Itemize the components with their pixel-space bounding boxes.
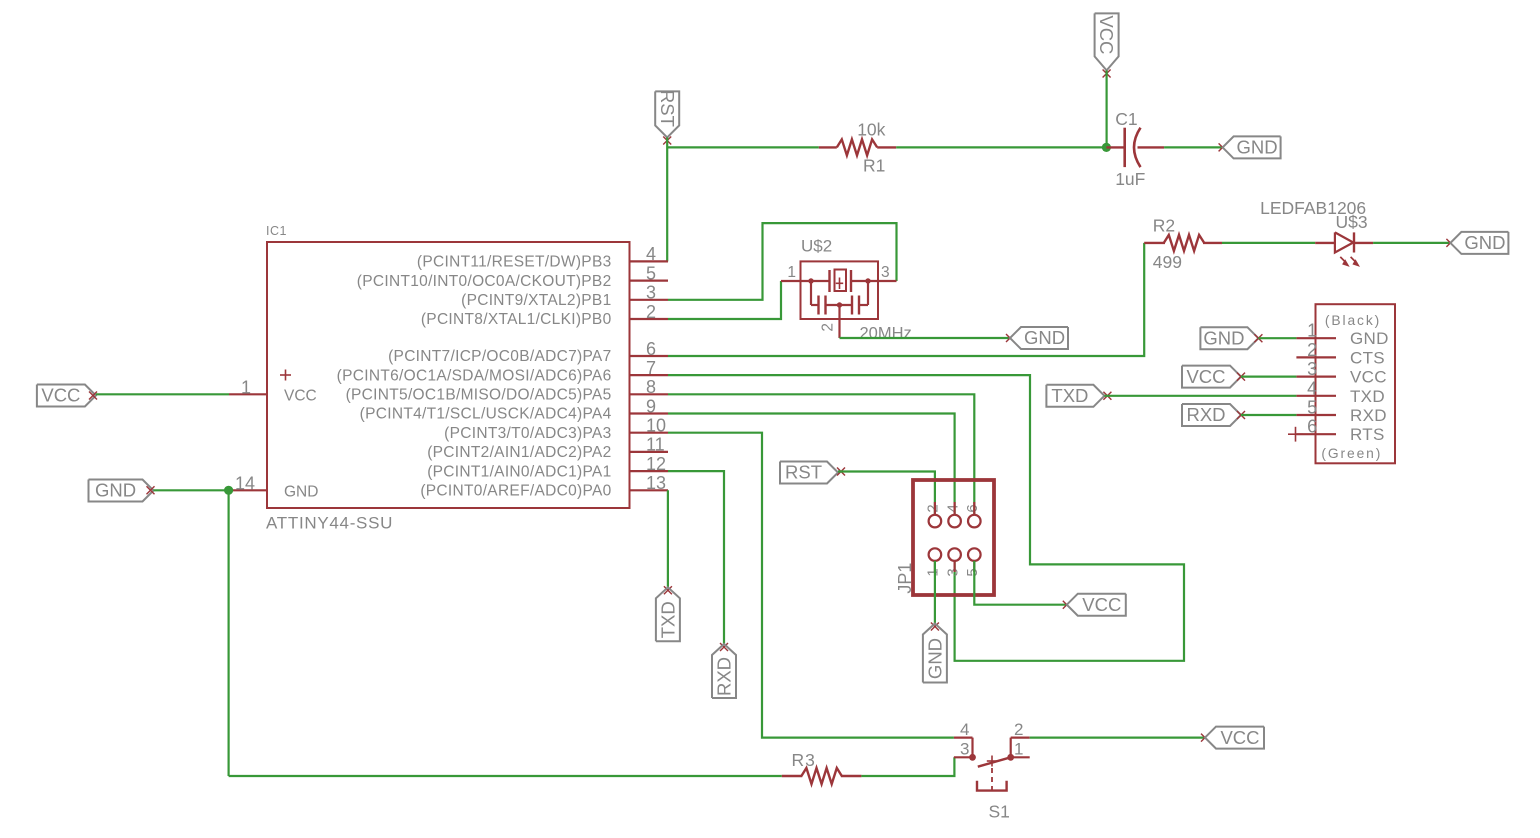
wire resonator pin 2 to GND: [840, 337, 1011, 339]
svg-text:TXD: TXD: [1051, 385, 1088, 406]
resistor R1: [819, 139, 896, 155]
switch S1 pin 3 stub: [954, 740, 973, 759]
switch S1 contact arm: [978, 757, 1011, 766]
net flag RST (top): [655, 90, 679, 137]
power flag VCC (bottom): [1205, 727, 1264, 749]
wire IC pin 10 to S1 pin 4: [668, 433, 954, 738]
svg-text:(PCINT9/XTAL2)PB1: (PCINT9/XTAL2)PB1: [461, 292, 611, 309]
resonator bottom rail right: [859, 304, 868, 306]
wire IC pin 6 to R2: [668, 243, 1144, 356]
ground flag GND (top): [1223, 136, 1281, 158]
svg-text:GND: GND: [1203, 327, 1244, 348]
svg-text:5: 5: [964, 568, 981, 576]
FTDI pin 1 (GND) stub: [1296, 321, 1388, 349]
svg-text:JP1: JP1: [895, 563, 915, 594]
junction cross at LED GND tip: [1446, 239, 1454, 247]
svg-text:1: 1: [1014, 740, 1023, 759]
JP1 pin 4 pad: [948, 515, 961, 528]
IC1 pin 7 (PA6) stub: [337, 358, 668, 384]
svg-text:R2: R2: [1153, 216, 1175, 236]
FTDI header body: [1316, 304, 1396, 463]
svg-text:(PCINT1/AIN0/ADC1)PA1: (PCINT1/AIN0/ADC1)PA1: [427, 463, 611, 480]
FTDI RTS open cross: [1288, 427, 1303, 442]
svg-text:2: 2: [925, 504, 942, 512]
svg-text:(PCINT4/T1/SCL/USCK/ADC4)PA4: (PCINT4/T1/SCL/USCK/ADC4)PA4: [360, 406, 612, 423]
svg-text:GND: GND: [924, 638, 945, 679]
label JP1 name: [895, 563, 915, 594]
svg-text:VCC: VCC: [1220, 727, 1259, 748]
resonator junction dot a: [808, 278, 813, 283]
svg-text:6: 6: [964, 504, 981, 512]
junction cross FTDI TXD: [1103, 392, 1111, 400]
power flag VCC (left): [37, 385, 96, 407]
svg-text:(PCINT6/OC1A/SDA/MOSI/ADC6)PA6: (PCINT6/OC1A/SDA/MOSI/ADC6)PA6: [337, 367, 612, 384]
wire VCC down to junction: [1105, 70, 1107, 147]
resonator bottom rail mid: [826, 304, 853, 306]
IC1 pin 14 (GND) stub: [229, 474, 267, 494]
FTDI pin 6 (RTS) stub: [1296, 417, 1384, 445]
svg-text:6: 6: [646, 339, 656, 359]
junction cross at left VCC tip: [89, 392, 97, 400]
svg-text:(PCINT7/ICP/OC0B/ADC7)PA7: (PCINT7/ICP/OC0B/ADC7)PA7: [388, 348, 611, 365]
wire IC pin 2 to resonator pin 1: [668, 281, 781, 319]
JP1 pin 2 number: [925, 504, 942, 512]
switch S1 cross mark: [987, 756, 998, 767]
svg-text:TXD: TXD: [1350, 387, 1385, 406]
net flag TXD (FTDI): [1046, 385, 1104, 407]
JP1 pin 6 pad: [968, 515, 981, 528]
IC1 pin 2 (PB0) stub: [421, 302, 668, 328]
power flag VCC (top): [1095, 13, 1119, 70]
label (Black): [1325, 313, 1381, 328]
svg-text:(PCINT8/XTAL1/CLKI)PB0: (PCINT8/XTAL1/CLKI)PB0: [421, 311, 612, 328]
wire IC pin 13 to TXD flag: [667, 490, 669, 587]
label C1 name: [1115, 109, 1137, 129]
resonator inner right lead: [851, 280, 897, 282]
switch S1 actuator bracket: [977, 781, 1007, 791]
wire GND flag to FTDI pin 1: [1258, 337, 1296, 339]
svg-text:13: 13: [646, 473, 666, 493]
svg-text:(PCINT10/INT0/OC0A/CKOUT)PB2: (PCINT10/INT0/OC0A/CKOUT)PB2: [357, 273, 612, 290]
svg-text:VCC: VCC: [1186, 366, 1225, 387]
label R1 value 10k: [857, 120, 885, 140]
JP1 pin stubs: [935, 502, 974, 572]
wire IC pin 12 to RXD flag: [668, 471, 724, 644]
svg-text:3: 3: [944, 568, 961, 576]
svg-text:1: 1: [241, 378, 251, 398]
wire RST vertical to IC pin 4: [666, 137, 668, 261]
svg-text:GND: GND: [95, 480, 136, 501]
switch S1 left junction dot: [969, 754, 976, 761]
junction cross at GND flag tip: [1219, 143, 1227, 151]
ground flag GND (FTDI): [1200, 327, 1258, 349]
svg-text:5: 5: [1307, 398, 1317, 418]
svg-text:8: 8: [646, 377, 656, 397]
svg-text:3: 3: [881, 264, 890, 281]
IC1 pin 10 (PA3) stub: [444, 416, 668, 442]
svg-text:U$3: U$3: [1336, 212, 1368, 232]
IC1 VCC plus mark: [280, 370, 291, 381]
svg-text:11: 11: [646, 435, 665, 455]
IC1 body: [267, 242, 630, 508]
label S1 name: [989, 802, 1010, 822]
IC1 pin 6 (PA7) stub: [388, 339, 668, 365]
resonator pin 1 lead: [781, 280, 830, 282]
svg-text:10: 10: [646, 416, 666, 436]
switch S1 right junction dot: [1007, 754, 1014, 761]
wire GND bottom to R3: [229, 775, 782, 777]
JP1 pin 3 pad: [948, 548, 961, 561]
svg-text:IC1: IC1: [266, 224, 287, 238]
JP1 header body: [913, 480, 994, 595]
junction cross at VCC flag tip: [1103, 70, 1111, 78]
svg-text:R1: R1: [863, 156, 885, 176]
resonator junction dot b: [865, 278, 870, 283]
svg-text:RTS: RTS: [1350, 425, 1385, 444]
resonator inner right vertical: [867, 281, 869, 305]
label R1 name: [863, 156, 885, 176]
power flag VCC (mid): [1067, 594, 1126, 616]
junction cross JP1 VCC: [1063, 601, 1071, 609]
label IC1 name: [266, 224, 287, 238]
svg-text:5: 5: [646, 263, 656, 283]
label C1 value 1uF: [1115, 169, 1145, 189]
svg-text:GND: GND: [1350, 329, 1389, 348]
svg-text:3: 3: [646, 283, 656, 303]
svg-text:C1: C1: [1115, 109, 1137, 129]
IC1 pin 5 (PB2) stub: [357, 263, 668, 289]
svg-text:CTS: CTS: [1350, 348, 1385, 367]
svg-text:VCC: VCC: [41, 385, 80, 406]
ground flag GND (JP1): [923, 624, 947, 683]
IC1 pin 11 (PA2) stub: [427, 435, 668, 461]
FTDI pin 2 (CTS) stub: [1296, 340, 1385, 368]
svg-text:RXD: RXD: [1186, 404, 1225, 425]
svg-text:RST: RST: [657, 90, 678, 127]
svg-text:(Green): (Green): [1321, 446, 1382, 461]
svg-text:1uF: 1uF: [1115, 169, 1145, 189]
svg-text:1: 1: [1307, 321, 1317, 341]
IC1 GND pin name: [284, 484, 318, 501]
svg-text:499: 499: [1153, 252, 1182, 272]
label (Green): [1321, 446, 1382, 461]
wire S1 pin 2 to VCC flag: [1030, 736, 1205, 738]
wire GND down left side: [228, 490, 230, 776]
IC1 pin 9 (PA4) stub: [360, 396, 668, 422]
svg-text:4: 4: [944, 504, 961, 512]
wire IC pin 3 to resonator pin 1 loop: [668, 223, 897, 300]
wire RXD flag to FTDI pin 5: [1241, 414, 1296, 416]
junction cross JP1 GND: [931, 623, 939, 631]
wire RST flag to JP1 pin 2: [838, 472, 935, 515]
svg-text:2: 2: [1307, 340, 1317, 360]
JP1 pin 1 number: [925, 568, 942, 576]
wire VCC to IC pin 1: [96, 393, 229, 395]
svg-text:9: 9: [646, 396, 656, 416]
svg-text:GND: GND: [1464, 232, 1505, 253]
junction cross at left GND tip: [147, 486, 155, 494]
JP1 pin 4 number: [944, 504, 961, 512]
wire LED to GND: [1373, 242, 1450, 244]
JP1 pin 5 pad: [968, 548, 981, 561]
svg-text:6: 6: [1307, 417, 1317, 437]
label U$2 value 20MHz: [860, 325, 912, 343]
switch S1 left vertical: [971, 738, 973, 758]
svg-text:(PCINT2/AIN1/ADC2)PA2: (PCINT2/AIN1/ADC2)PA2: [427, 444, 611, 461]
wire C1 to GND flag: [1164, 146, 1223, 148]
svg-text:(PCINT3/T0/ADC3)PA3: (PCINT3/T0/ADC3)PA3: [444, 425, 611, 442]
svg-text:4: 4: [1307, 378, 1317, 398]
resonator pin number 1: [787, 264, 796, 281]
net flag RXD (bottom): [712, 644, 736, 698]
net flag RXD (FTDI): [1182, 404, 1241, 426]
svg-text:RXD: RXD: [713, 657, 734, 696]
svg-text:TXD: TXD: [657, 601, 678, 638]
wire VCC flag to FTDI pin 3: [1241, 376, 1296, 378]
svg-text:2: 2: [646, 302, 656, 322]
svg-text:1: 1: [925, 568, 942, 576]
resonator cap2 plates: [852, 296, 859, 315]
junction cross RST mid: [837, 468, 845, 476]
junction cross at RST flag tip: [663, 137, 671, 145]
resonator pin number 2: [820, 323, 837, 332]
wire R1 to junction: [896, 146, 1106, 148]
ground flag GND (resonator): [1010, 327, 1068, 349]
label R2 name: [1153, 216, 1175, 236]
label U$3 name: [1336, 212, 1368, 232]
FTDI pin 3 (VCC) stub: [1296, 359, 1386, 387]
wire TXD flag to FTDI pin 4: [1104, 395, 1296, 397]
label R3 name: [792, 750, 816, 770]
svg-text:GND: GND: [284, 484, 318, 501]
wire IC pin 9 to JP1 pin 4: [668, 414, 955, 515]
svg-text:14: 14: [235, 474, 255, 494]
svg-text:RXD: RXD: [1350, 406, 1387, 425]
JP1 pin 1 pad: [929, 548, 942, 561]
svg-text:ATTINY44-SSU: ATTINY44-SSU: [266, 514, 393, 533]
wire RST horizontal to R1: [667, 146, 819, 148]
svg-text:GND: GND: [1024, 327, 1065, 348]
label IC1 value ATTINY44-SSU: [266, 514, 393, 533]
JP1 pin 5 number: [964, 568, 981, 576]
junction node: [1102, 143, 1111, 152]
IC1 pin 4 (PB3) stub: [417, 244, 668, 270]
svg-text:12: 12: [646, 454, 666, 474]
svg-text:4: 4: [646, 244, 656, 264]
net flag RST (mid): [780, 462, 838, 484]
resonator pin number 3: [881, 264, 890, 281]
wire GND to IC pin 14: [154, 489, 230, 491]
svg-text:VCC: VCC: [1082, 594, 1121, 615]
resonator U$2 body: [801, 261, 879, 319]
label R2 value 499: [1153, 252, 1182, 272]
label LEDFAB1206: [1260, 198, 1366, 218]
wire JP1 pin 5 to VCC flag: [974, 561, 1067, 605]
junction cross bottom VCC: [1201, 734, 1209, 742]
svg-text:(PCINT11/RESET/DW)PB3: (PCINT11/RESET/DW)PB3: [417, 254, 612, 271]
label U$2 name: [801, 237, 832, 256]
svg-text:3: 3: [1307, 359, 1317, 379]
IC1 pin 8 (PA5) stub: [346, 377, 668, 403]
svg-text:VCC: VCC: [1096, 15, 1117, 54]
LED U$3: [1315, 232, 1373, 252]
resonator cap1 plates: [819, 296, 826, 315]
junction cross RXD bottom: [720, 643, 728, 651]
junction cross FTDI RXD: [1237, 411, 1245, 419]
svg-text:VCC: VCC: [1350, 368, 1387, 387]
capacitor C1: [1106, 128, 1164, 167]
resonator crystal body: [835, 270, 847, 292]
svg-text:2: 2: [820, 323, 837, 332]
switch S1 pin 1 stub: [1011, 740, 1030, 759]
junction cross FTDI VCC: [1237, 373, 1245, 381]
JP1 pin 3 number: [944, 568, 961, 576]
resistor R3: [782, 768, 862, 784]
switch S1 pin 4 stub: [954, 720, 973, 739]
resonator pin 2 lead down: [838, 305, 840, 338]
FTDI pin 4 (TXD) stub: [1296, 378, 1385, 406]
resistor R2: [1144, 235, 1222, 251]
LED arrows: [1340, 257, 1360, 267]
net flag TXD (bottom): [656, 587, 680, 641]
svg-text:2: 2: [1014, 720, 1023, 739]
svg-text:(PCINT0/AREF/ADC0)PA0: (PCINT0/AREF/ADC0)PA0: [420, 483, 611, 500]
svg-text:20MHz: 20MHz: [860, 325, 912, 343]
svg-text:VCC: VCC: [284, 388, 317, 405]
svg-text:4: 4: [960, 720, 969, 739]
ground flag GND (left): [89, 480, 154, 502]
svg-text:7: 7: [646, 358, 656, 378]
switch S1 right vertical: [1010, 738, 1012, 758]
FTDI pin 5 (RXD) stub: [1296, 398, 1386, 426]
svg-text:R3: R3: [792, 750, 816, 770]
wire JP1 pin 1 to GND flag: [934, 561, 936, 624]
svg-text:(Black): (Black): [1325, 313, 1381, 328]
svg-text:10k: 10k: [857, 120, 885, 140]
ground flag GND (LED): [1450, 232, 1508, 254]
junction cross at resonator GND tip: [1006, 334, 1014, 342]
IC1 pin 12 (PA1) stub: [427, 454, 668, 480]
resonator junction dot c: [837, 302, 842, 307]
resonator crystal plates: [830, 270, 852, 292]
JP1 pin 6 number: [964, 504, 981, 512]
wire IC pin 8 to JP1 pin 6: [668, 394, 974, 515]
junction cross TXD bottom: [664, 586, 672, 594]
svg-text:(PCINT5/OC1B/MISO/DO/ADC5)PA5: (PCINT5/OC1B/MISO/DO/ADC5)PA5: [346, 387, 612, 404]
svg-text:1: 1: [787, 264, 796, 281]
junction node at pin 14: [224, 486, 233, 495]
svg-text:S1: S1: [989, 802, 1010, 822]
svg-text:GND: GND: [1237, 137, 1278, 158]
wire R2 to LED: [1222, 242, 1315, 244]
power flag VCC (FTDI): [1182, 366, 1241, 388]
svg-text:3: 3: [960, 740, 969, 759]
JP1 pin 2 pad: [929, 515, 942, 528]
wire R3 to S1 pin 3: [861, 757, 954, 776]
svg-text:U$2: U$2: [801, 237, 832, 256]
IC1 VCC pin name: [284, 388, 317, 405]
svg-text:RST: RST: [785, 462, 822, 483]
IC1 pin 1 (VCC) stub: [229, 378, 267, 398]
junction cross FTDI GND: [1254, 334, 1262, 342]
switch S1 pin 2 stub: [1011, 720, 1030, 739]
switch S1 actuator dashed link: [991, 768, 993, 790]
wire IC pin 7 to JP1 pin 3: [668, 375, 1184, 661]
IC1 pin 3 (PB1) stub: [461, 283, 668, 309]
resonator bottom rail left: [811, 304, 819, 306]
resonator inner left vertical: [810, 281, 812, 305]
IC1 pin 13 (PA0) stub: [420, 473, 668, 499]
